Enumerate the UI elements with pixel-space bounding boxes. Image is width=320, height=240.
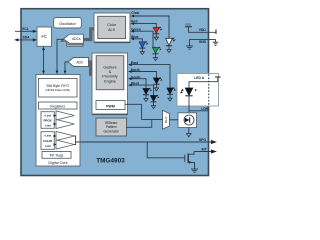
wire Clear photodiode to Color ALS	[131, 15, 170, 38]
transistor Q1 open-drain NMOS	[185, 152, 195, 169]
wire West photodiode to gesture engine	[128, 84, 154, 96]
wire I2C to digital core (bidirectional)	[42, 47, 45, 75]
svg-text:ALS: ALS	[108, 28, 116, 32]
wire PWM to MUX	[125, 104, 163, 119]
ground symbol under Q1	[191, 169, 198, 172]
wire North photodiode to gesture engine	[128, 70, 157, 78]
photodiode north	[153, 77, 162, 91]
wire ADCs to digital core	[56, 39, 64, 74]
wire SCL into I2C	[15, 30, 37, 33]
driver current return arrow	[187, 128, 192, 137]
svg-text:I²C: I²C	[41, 34, 47, 39]
pin INT wire and arrow	[194, 148, 217, 154]
ADCs block (stacked)	[61, 34, 83, 46]
pin VDD wire crossing border	[188, 28, 216, 34]
svg-text:Proximity: Proximity	[102, 75, 118, 79]
LED driver block	[178, 113, 197, 128]
PROX limit block	[41, 112, 54, 129]
wire Red photodiode to Color ALS	[131, 22, 157, 27]
svg-text:+Limit: +Limit	[44, 114, 51, 117]
photodiode blue	[139, 41, 148, 55]
photodiode east	[167, 87, 176, 101]
photodiode red	[153, 27, 162, 41]
svg-text:SDA: SDA	[23, 36, 31, 40]
svg-text:INT Flags: INT Flags	[50, 154, 64, 158]
svg-text:Oscillator: Oscillator	[59, 21, 76, 26]
svg-text:Gesture: Gesture	[103, 65, 117, 69]
wire SDA bidirectional	[14, 38, 37, 41]
svg-text:GPO: GPO	[199, 138, 207, 142]
bus ADC to gesture engine	[88, 62, 92, 74]
registers block	[39, 102, 78, 109]
IRBeam pattern generator block	[96, 118, 127, 136]
comparator PROX upper	[56, 111, 74, 120]
photodiode west	[150, 95, 159, 109]
device outline TMG4903	[21, 9, 209, 176]
svg-text:SCL: SCL	[22, 27, 29, 31]
pin GND wire crossing border	[190, 39, 216, 44]
power symbol VDD internal	[185, 23, 192, 33]
photodiode green	[152, 47, 161, 61]
svg-text:&: &	[109, 70, 112, 74]
svg-text:(256 Bit Pattern RAM): (256 Bit Pattern RAM)	[45, 89, 70, 92]
svg-text:MUX: MUX	[164, 116, 168, 123]
svg-text:-Limit: -Limit	[44, 124, 50, 127]
FIFO block	[39, 79, 78, 98]
ADC block	[68, 58, 89, 67]
svg-text:Color: Color	[107, 23, 117, 27]
svg-text:PROX: PROX	[43, 118, 51, 122]
svg-text:+Limit: +Limit	[44, 134, 51, 137]
wire LED anode	[189, 82, 218, 88]
svg-text:INT: INT	[202, 148, 207, 152]
svg-text:Digital Core: Digital Core	[48, 161, 67, 165]
I2C interface block	[37, 27, 52, 46]
svg-text:PWM: PWM	[106, 105, 115, 109]
LED D1	[180, 88, 196, 96]
comparator CLEAR upper	[56, 132, 74, 141]
wire ADC to digital core	[64, 62, 68, 74]
ground symbol external right	[213, 39, 219, 45]
pin LDR wire	[189, 107, 209, 111]
svg-text:LDR: LDR	[201, 107, 208, 111]
INT flags block	[42, 152, 71, 159]
svg-text:Generator: Generator	[104, 130, 120, 134]
svg-text:Clear: Clear	[131, 11, 140, 15]
wire MUX to LED driver	[170, 119, 179, 121]
photodiode clear	[166, 38, 176, 53]
svg-text:ADCs: ADCs	[72, 37, 81, 41]
digital core block	[36, 75, 80, 167]
PWM block	[96, 101, 125, 110]
CLEAR limit block	[41, 132, 54, 150]
comparator PROX lower	[56, 120, 74, 129]
oscillator block	[54, 18, 82, 29]
wire gate branch from GPO net	[147, 142, 184, 158]
wire LED cathode to driver	[188, 96, 190, 113]
wire Blue photodiode to Color ALS	[131, 37, 143, 41]
svg-text:CLEAR: CLEAR	[43, 139, 52, 143]
wire East photodiode to gesture engine	[128, 63, 170, 88]
svg-text:GND: GND	[199, 40, 207, 44]
svg-text:VDD: VDD	[199, 28, 207, 32]
svg-text:Engine: Engine	[104, 79, 116, 83]
Color ALS block	[94, 13, 130, 43]
wires CLEAR box to comparators	[54, 135, 57, 146]
wire comparator output to GPO	[74, 136, 211, 145]
terminal VLEDA	[215, 77, 221, 82]
gesture and proximity engine block	[92, 53, 128, 115]
svg-text:256 Byte FIFO: 256 Byte FIFO	[46, 84, 69, 88]
wires PROX box to comparators	[54, 114, 57, 125]
svg-text:TMG4903: TMG4903	[96, 158, 125, 165]
svg-text:-Limit: -Limit	[44, 145, 50, 148]
ground symbol internal	[186, 39, 193, 49]
svg-text:ADC: ADC	[76, 60, 84, 64]
svg-text:VDD: VDD	[185, 23, 191, 27]
photodiode south	[143, 88, 152, 102]
wire IRBeam to MUX	[127, 119, 152, 127]
LED A external component box	[177, 74, 219, 107]
svg-text:LED A: LED A	[194, 76, 204, 80]
svg-text:Registers: Registers	[50, 104, 65, 108]
MUX block	[163, 110, 170, 129]
pin GPO arrow	[199, 138, 217, 144]
wire Green photodiode to Color ALS	[131, 30, 156, 48]
comparator CLEAR lower	[56, 140, 74, 149]
wire South photodiode to gesture engine	[128, 77, 146, 88]
dashed device border through LED A box	[208, 74, 210, 105]
bus ADCs to Color ALS	[83, 29, 95, 40]
